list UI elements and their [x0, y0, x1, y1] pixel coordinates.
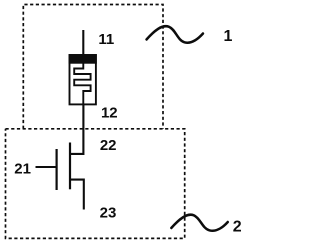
memristor M1 body outline — [70, 55, 96, 104]
svg-text:22: 22 — [100, 137, 117, 154]
svg-text:23: 23 — [100, 204, 117, 221]
dashed box 2 (transistor cell outline) — [6, 129, 185, 239]
svg-text:1: 1 — [224, 28, 233, 45]
squiggle lead line to label 1 — [147, 26, 204, 43]
wire: gate lead (node 21) — [36, 166, 57, 168]
transistor Q1 channel bar — [69, 143, 71, 190]
dashed box 1 (memristor cell outline) — [23, 5, 163, 129]
wire: memristor top lead (node 11) — [82, 30, 84, 56]
wire: memristor bottom to transistor drain (node 12/22) — [70, 105, 83, 154]
svg-text:2: 2 — [233, 219, 242, 236]
svg-text:11: 11 — [98, 31, 114, 48]
memristor M1 internal meander line — [74, 63, 90, 106]
svg-text:12: 12 — [101, 104, 118, 121]
wire: source lead (node 23) — [70, 180, 84, 210]
transistor Q1 gate plate — [55, 149, 57, 190]
memristor M1 filled top electrode band — [69, 54, 97, 64]
squiggle lead line to label 2 — [171, 215, 228, 231]
svg-text:21: 21 — [14, 161, 31, 178]
